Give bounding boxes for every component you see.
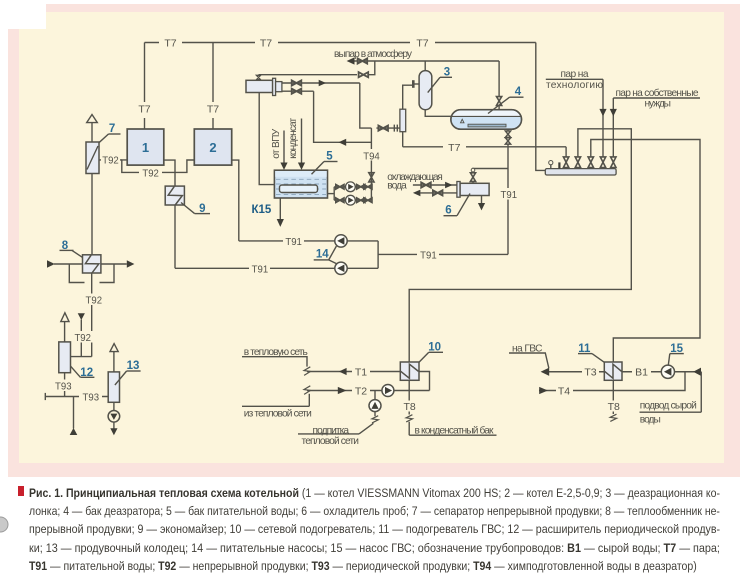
leader of label 10 — [429, 351, 443, 353]
valves on cooler lower outlet — [292, 89, 302, 94]
svg-text:Т4: Т4 — [558, 385, 570, 397]
wire steam to technology from valve 4 — [602, 79, 604, 157]
svg-text:Т91: Т91 — [285, 236, 302, 248]
manifold valve 2 — [575, 157, 580, 168]
wire T2 from heating network — [307, 390, 430, 392]
svg-text:Т7: Т7 — [164, 37, 176, 49]
wire steam to own needs from valve 5 — [612, 98, 614, 157]
svg-text:Т7: Т7 — [260, 37, 272, 49]
wire economizer down to T91 bottom line — [174, 205, 176, 268]
wire boiler2 right outlet down to T91 pump line — [232, 160, 239, 241]
wire T8 condensate from HX10 — [408, 380, 410, 414]
vent wire of expander 12 — [64, 322, 66, 342]
wire condensate into tank 5 — [301, 119, 303, 164]
leader from na-GVS label — [509, 353, 549, 368]
svg-text:13: 13 — [127, 360, 140, 372]
svg-text:Т7: Т7 — [416, 37, 428, 49]
heat exchanger 8 — [83, 255, 101, 273]
wire T91 bottom line to feed pump — [175, 267, 335, 269]
svg-text:Т94: Т94 — [363, 150, 380, 162]
svg-text:Т93: Т93 — [83, 391, 100, 403]
svg-text:Т93: Т93 — [55, 380, 72, 392]
arrow end of T93 branch — [70, 428, 78, 435]
vent triangle above expander 12 — [61, 313, 69, 322]
svg-text:вода: вода — [387, 181, 407, 192]
wire T92 horizontal into expander 12 — [71, 356, 92, 358]
boiler 1 — [127, 129, 164, 165]
thermometer on manifold — [558, 162, 560, 168]
arrow inlet to heat exchanger 8 — [47, 260, 55, 267]
leader of label 14 — [314, 259, 329, 261]
valve on vypar line — [358, 58, 368, 63]
component number labels — [62, 67, 684, 379]
wire boiler1 right outlet to economizer — [164, 160, 175, 187]
GVS pump 15 — [661, 365, 674, 378]
leader of label 4 — [510, 96, 524, 98]
wire vypar branch down to vypar cooler — [369, 61, 375, 75]
arrow on cooler upper outlet — [319, 80, 326, 87]
svg-text:конденсат: конденсат — [288, 117, 299, 158]
wire T92 from HX8 down — [91, 273, 93, 357]
flange on column 3 — [414, 83, 419, 85]
leader from iz-seti label — [242, 405, 309, 407]
wire T94 riser to deaerator — [370, 128, 372, 187]
wire inlet to HX8 — [54, 263, 83, 265]
wire steam to HX10 from valve 2 — [409, 129, 631, 362]
valves on lower branch discharge — [357, 198, 365, 203]
arrow on condensate return — [339, 139, 347, 146]
svg-text:в конденсатный бак: в конденсатный бак — [415, 424, 495, 436]
break squiggle on make-up line — [372, 416, 378, 423]
decorative gray mark at left page edge — [0, 517, 8, 532]
arrow on T3 — [541, 368, 550, 376]
manifold valve 5 — [611, 157, 616, 168]
svg-text:Т2: Т2 — [355, 385, 367, 397]
svg-text:1: 1 — [142, 140, 149, 155]
wire vypar cooler top line — [259, 74, 358, 76]
svg-text:Т92: Т92 — [102, 154, 119, 166]
annotation texts — [244, 48, 699, 447]
wire outlet of HX8 — [101, 263, 127, 265]
leader of label 9 — [195, 213, 210, 215]
arrow raw water incoming — [693, 368, 701, 376]
wire vent of separator 7 — [91, 123, 93, 142]
feed water tank U5 — [274, 170, 327, 198]
wire raw water riser from label — [700, 372, 702, 412]
svg-text:12: 12 — [80, 367, 93, 379]
pump on lower branch — [346, 195, 356, 205]
svg-text:Т92: Т92 — [142, 167, 159, 179]
underline of raw-water label — [640, 411, 702, 413]
svg-text:выпар в атмосферу: выпар в атмосферу — [334, 48, 413, 60]
blowdown well U13 — [108, 372, 119, 402]
vypar cooler body — [246, 80, 273, 92]
wire separator 7 to boiler 1 (T92) — [99, 159, 122, 161]
arrow T92 incoming from boilers — [78, 313, 85, 320]
svg-text:пар на: пар на — [561, 69, 589, 80]
leader of label 3 — [440, 76, 452, 78]
svg-text:технологию: технологию — [546, 80, 603, 91]
wire gauge drain to T7 line — [402, 132, 404, 147]
valve on cooler top line — [359, 72, 369, 77]
leader of label 7 — [109, 133, 121, 135]
feed pump 14a — [335, 235, 347, 247]
svg-text:15: 15 — [670, 343, 683, 355]
leader of label 5 — [324, 161, 338, 163]
wire T2 up into HX10 — [419, 372, 430, 391]
wire T7 drop to boiler 1 — [144, 43, 146, 130]
svg-text:К15: К15 — [251, 204, 271, 216]
wire T7 main steam header — [145, 42, 536, 44]
flange pair on gauge inlet — [393, 125, 395, 132]
steam manifold — [545, 169, 616, 175]
wire T94 inlet to gauge — [376, 127, 400, 129]
wire cooling water inlet — [413, 184, 457, 186]
wire B1 raw water into HX11 — [622, 371, 701, 373]
wire pump 14 discharge header — [347, 240, 378, 242]
svg-text:В1: В1 — [635, 367, 648, 379]
svg-text:Т7: Т7 — [207, 103, 219, 115]
deaerator tank U4 — [451, 110, 522, 130]
wire separator 7 down to heat exchanger 8 — [91, 174, 93, 255]
leader of label 12 — [80, 376, 94, 378]
svg-text:пар на собственные: пар на собственные — [616, 87, 699, 99]
leader of label 11 — [578, 353, 592, 355]
valve on upper branch — [336, 185, 344, 190]
vent triangle above well 13 — [110, 344, 118, 352]
valve on lower branch — [336, 198, 344, 203]
wire column 3 to level gauge — [403, 85, 412, 109]
expander U12 (periodic blowdown expander) — [59, 342, 71, 373]
manifold valve 3 — [588, 157, 593, 168]
wire T91 top line to feed pump — [239, 240, 335, 242]
svg-text:Т92: Т92 — [74, 332, 91, 344]
svg-text:Т7: Т7 — [138, 103, 150, 115]
separator R7 (continuous blowdown separator) — [86, 142, 99, 174]
arrow end under well 13 — [110, 428, 117, 435]
leader of label 6 — [444, 215, 458, 217]
svg-text:8: 8 — [62, 240, 69, 252]
deaerator column U3 — [419, 71, 432, 110]
valve on T94 riser — [369, 173, 374, 182]
text masks — [54, 36, 651, 412]
vent wire of well 13 — [113, 352, 115, 372]
svg-text:Т91: Т91 — [501, 189, 518, 201]
valve on T94 inlet — [378, 126, 388, 131]
pipe label texts — [55, 37, 648, 413]
wire T92 incoming drop — [80, 320, 82, 357]
transfer pump branch upper — [334, 186, 371, 188]
valves on upper branch discharge — [357, 185, 365, 190]
svg-text:Т1: Т1 — [355, 366, 367, 378]
wire cooler outlet upper (to deaerator) — [282, 82, 360, 84]
svg-text:14: 14 — [316, 248, 329, 260]
break squiggle on T2 — [304, 386, 310, 395]
manifold valve 4 — [600, 157, 605, 168]
svg-text:в тепловую сеть: в тепловую сеть — [244, 347, 308, 358]
arrow on T4 — [539, 387, 548, 394]
underline of condensate-tank label — [409, 434, 496, 436]
svg-text:на ГВС: на ГВС — [512, 344, 543, 355]
svg-text:воды: воды — [640, 415, 661, 426]
wire vypar cooler drain to tank 5 — [259, 93, 274, 185]
wire K15 drain of tank 5 — [279, 198, 281, 220]
wire sample cooler branch — [473, 169, 508, 172]
wire T3 to GVS — [549, 371, 604, 373]
wire T4 return — [539, 372, 685, 391]
wire T8 condensate from HX11 — [612, 380, 614, 414]
sample cooler U6 — [457, 182, 460, 198]
pump on upper branch — [346, 182, 356, 192]
boiler 2 — [194, 129, 231, 165]
wire column 3 bottom into deaerator tank 4 — [425, 110, 451, 117]
svg-text:из тепловой сети: из тепловой сети — [244, 408, 312, 419]
svg-text:Т3: Т3 — [584, 367, 596, 379]
vent triangle above separator 7 — [87, 115, 98, 123]
arrow vypar outlet — [347, 57, 355, 64]
feed pump 14b — [335, 262, 347, 274]
svg-text:нужды: нужды — [645, 99, 672, 110]
svg-text:3: 3 — [444, 67, 450, 79]
arrow on T1 — [339, 368, 347, 375]
leader to heating network label — [242, 357, 307, 367]
economizer U9 — [165, 186, 184, 205]
bypass loop under HX8 — [69, 264, 84, 283]
svg-text:10: 10 — [428, 342, 441, 354]
wire condensate return down and to T94 node — [314, 91, 372, 142]
wire T92 run to boiler 2 — [161, 160, 195, 172]
svg-text:11: 11 — [578, 343, 591, 355]
wire T91 middle line to deaerator tank riser — [378, 253, 508, 255]
level gauge vessel — [400, 109, 406, 132]
wire T93 branch down — [73, 397, 75, 429]
wire tank 5 outlet to transfer pumps — [328, 193, 335, 195]
wire T7 drop to boiler 2 — [212, 43, 214, 130]
svg-text:подвод сырой: подвод сырой — [640, 401, 697, 412]
svg-text:Т8: Т8 — [608, 401, 620, 413]
break squiggle on T1 — [304, 367, 310, 376]
wire T7 header drop to manifold — [536, 43, 546, 171]
manifold valve 1 — [563, 157, 568, 168]
svg-text:Т8: Т8 — [403, 401, 415, 413]
wire upper outlet drop to T94 node — [360, 83, 372, 128]
transfer pump branch lower — [334, 199, 371, 201]
drain circle with down triangle under well 13 — [108, 411, 120, 423]
svg-text:Т92: Т92 — [86, 294, 103, 306]
leader of label 15 — [670, 353, 684, 355]
wire steam to HX11 from valve 3 — [591, 140, 700, 363]
make-up branch with pump — [374, 391, 376, 400]
arrow outlet of HX8 — [127, 260, 135, 267]
valve above sample cooler — [470, 173, 475, 182]
wire T7 deaerator steam line — [403, 146, 566, 148]
svg-text:4: 4 — [515, 86, 522, 98]
wire T1 to heating network — [307, 371, 400, 373]
underline of steam-to-technology label — [546, 78, 603, 80]
svg-text:6: 6 — [445, 205, 451, 217]
wire T92 boiler1 left outlet — [122, 160, 141, 173]
svg-text:подпитка: подпитка — [313, 425, 350, 436]
arrow on T2 — [338, 387, 347, 394]
leader of label 8 — [60, 249, 74, 251]
network heater U10 — [400, 362, 419, 380]
svg-text:тепловой сети: тепловой сети — [302, 436, 360, 447]
wire vypar to atmosphere — [354, 60, 499, 62]
wire cooler lower outlet — [282, 90, 314, 92]
svg-text:Т91: Т91 — [252, 263, 269, 275]
safety valve on vypar cooler — [256, 75, 260, 79]
valves on cooler upper outlet — [292, 80, 302, 85]
wire T91 riser from tank4 junction down to pumps 14 — [507, 147, 509, 255]
leader from make-up label — [298, 433, 359, 435]
end tick of T93 line — [44, 393, 46, 400]
wire cooling water outlet — [420, 192, 457, 194]
wire well 13 down to drain — [113, 402, 115, 410]
leader of label 13 — [127, 370, 141, 372]
wire steam into tank 4 with valve — [498, 61, 500, 96]
wire from VPU into tank 5 — [283, 131, 285, 164]
svg-text:9: 9 — [199, 203, 205, 215]
svg-text:от ВПУ: от ВПУ — [271, 128, 282, 159]
wire T93 horizontal — [45, 396, 108, 398]
svg-text:Т91: Т91 — [420, 249, 437, 261]
svg-text:2: 2 — [209, 140, 216, 155]
network pump on T2 — [382, 385, 394, 397]
drain arrow under sample cooler — [481, 196, 483, 204]
svg-text:7: 7 — [109, 123, 115, 135]
svg-text:Т7: Т7 — [448, 142, 460, 154]
wire expander 12 down to T93 — [64, 373, 66, 397]
GVS heater U11 — [604, 362, 622, 380]
wire tank 4 bottom outlet with double valve — [507, 129, 509, 131]
underline of steam-own-needs label — [613, 97, 700, 99]
svg-text:5: 5 — [326, 151, 333, 163]
pressure gauge on manifold — [550, 165, 552, 169]
wire deaerator column top to vypar line — [424, 61, 426, 71]
